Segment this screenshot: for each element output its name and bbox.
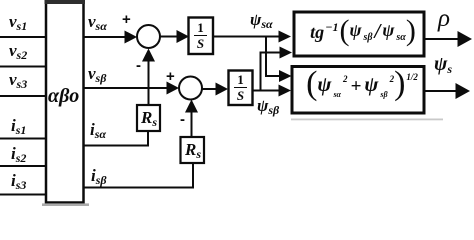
integrator block 2 (229, 71, 253, 106)
feedback wire Rs2 to sum2 (191, 111, 193, 137)
feedback wire Rs1 to sum1 (148, 60, 150, 105)
label isb (91, 167, 107, 184)
wire is1 input (0, 138, 46, 140)
label is3 (11, 172, 26, 189)
label rho (438, 6, 450, 31)
wire sum2 to integrator 2 (202, 88, 217, 90)
sign plus sum1 (122, 12, 131, 27)
branch psi_sb up to tg block (261, 53, 281, 91)
label psi_s (434, 54, 452, 74)
summing junction 2 (179, 77, 202, 100)
formula magnitude block (296, 63, 428, 109)
output wire rho (424, 38, 459, 40)
summing junction 1 (137, 25, 160, 48)
wire isa into Rs1 (84, 131, 149, 146)
abc transform block (46, 3, 84, 203)
angle block tg (294, 12, 424, 56)
integrator 1 text 1/S (194, 21, 207, 50)
label isa (90, 121, 106, 138)
wire is3 input (0, 194, 46, 196)
label is2 (11, 145, 26, 162)
magnitude block (292, 67, 424, 114)
wire vsb to summing junction 2 (84, 87, 169, 89)
label vsb (88, 65, 106, 82)
wire vs2 input (0, 66, 46, 68)
label vs2 (9, 42, 27, 59)
Rs block 2 (181, 137, 205, 163)
label is1 (11, 117, 26, 134)
formula tg block (298, 10, 428, 53)
label vs3 (9, 71, 27, 88)
label vsa (88, 13, 107, 30)
integrator 2 text 1/S (234, 73, 247, 102)
sign plus sum2 (166, 69, 175, 84)
wire is2 input (0, 165, 46, 167)
output wire psi_s (424, 90, 457, 92)
branch psi_sa down to magnitude block (266, 37, 280, 77)
wire integrator2 to magnitude block (psi_sb) (253, 90, 280, 92)
label psi_sb (257, 97, 279, 114)
sign minus sum2 (180, 112, 185, 127)
label Rs1 (141, 109, 157, 126)
wire vs1 input (0, 36, 46, 38)
wire vsa to summing junction 1 (84, 36, 127, 38)
wire sum1 to integrator 1 (160, 36, 178, 38)
integrator block 1 (189, 18, 214, 55)
wire vs3 input (0, 95, 46, 97)
Rs block 1 (137, 105, 160, 131)
sign minus sum1 (136, 58, 141, 73)
label Rs2 (185, 141, 201, 158)
label alpha-beta-o (48, 86, 79, 106)
label vs1 (9, 13, 27, 30)
label psi_sa (250, 11, 273, 28)
wire isb into Rs2 (84, 163, 194, 188)
wire integrator1 to tg block (psi_sa) (213, 36, 280, 38)
